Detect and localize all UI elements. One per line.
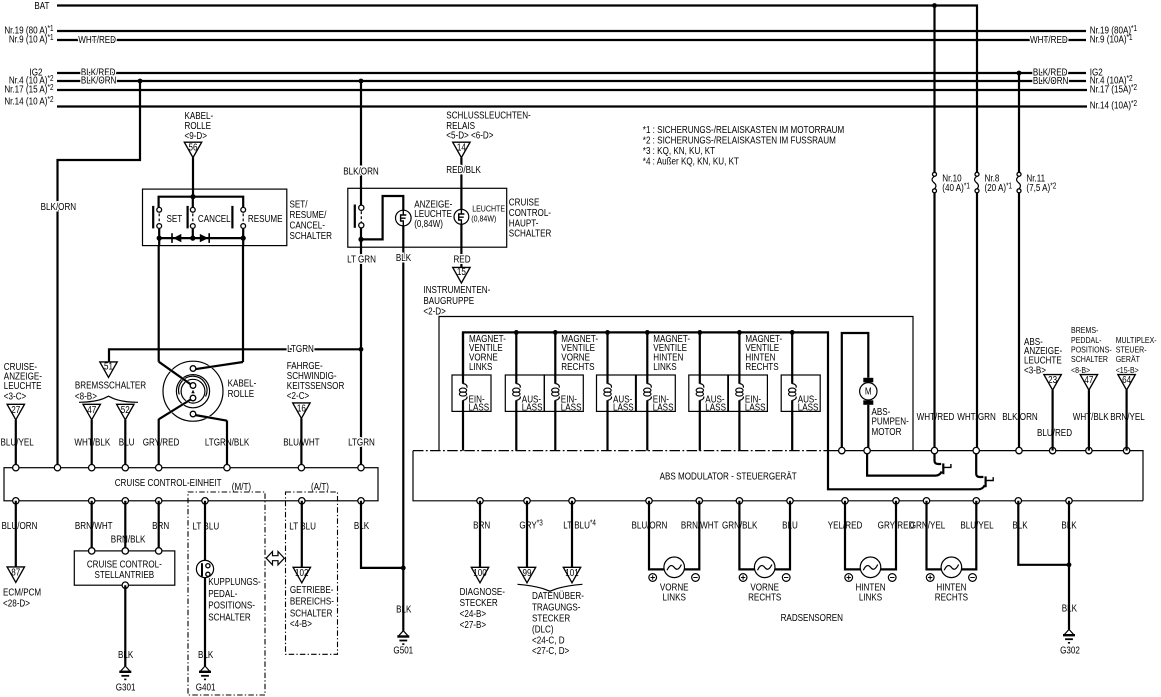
relay contact pump motor [867,451,951,476]
terminal BLU/WHT [298,465,304,471]
svg-text:RED/BLK: RED/BLK [446,164,481,175]
svg-text:47: 47 [87,404,96,415]
svg-text:<4-B>: <4-B> [290,618,312,629]
svg-text:LASS: LASS [561,402,582,413]
svg-text:BLU/WHT: BLU/WHT [283,437,320,448]
wire reel diagonal set to contact2 [161,363,190,383]
svg-text:Nr.9 (10A)*1: Nr.9 (10A)*1 [1090,34,1133,45]
wire Nr.8 column [976,171,978,173]
svg-text:BLK: BLK [354,520,369,531]
svg-text:<24-B>: <24-B> [460,608,487,619]
svg-text:BREMSSCHALTER: BREMSSCHALTER [75,380,147,391]
junction bus ein4 [737,330,742,335]
svg-text:SCHALTER: SCHALTER [208,612,251,623]
svg-text:<2-C>: <2-C> [287,390,309,401]
contact reel 4 [190,411,196,417]
svg-text:LASS: LASS [522,402,543,413]
svg-text:TRAGUNGS-: TRAGUNGS- [532,602,580,613]
terminal GRN/YEL [923,498,929,504]
valve AUS-LASS 2 [597,332,636,450]
switch haupt [355,188,364,228]
svg-text:DATENÜBER-: DATENÜBER- [532,590,584,601]
svg-text:101: 101 [565,567,578,578]
svg-text:56: 56 [189,142,198,153]
terminal BLU/YEL [973,498,979,504]
svg-text:16: 16 [297,403,306,414]
terminal BLU/ORN [646,498,652,504]
box CRUISE CONTROL-HAUPT-SCHALTER [348,188,507,247]
wire reel diagonal contact4 to ltgrn/blk [198,415,226,420]
valve EIN-LASS 2 [544,332,583,450]
connector 64 [1118,375,1135,391]
wire BLU [124,420,126,468]
connector 100 [471,567,488,583]
sensor VORNE LINKS [649,501,700,603]
svg-text:Nr.17 (15 A)*2: Nr.17 (15 A)*2 [4,84,53,95]
wire solenoid bus [463,332,985,489]
junction BAT/Nr.10 [932,3,937,8]
wire LTGRN horizontal [109,349,361,362]
svg-text:Nr.14 (10A)*2: Nr.14 (10A)*2 [1090,100,1137,111]
terminal BLK [358,498,364,504]
svg-text:<27-B>: <27-B> [460,619,487,630]
svg-text:(M/T): (M/T) [232,481,251,492]
svg-text:DIAGNOSE-: DIAGNOSE- [460,586,505,597]
terminal LTGRN [358,465,364,471]
terminal BRN/YEL [1123,447,1129,453]
svg-text:Nr.9 (10 A)*1: Nr.9 (10 A)*1 [9,34,54,45]
wire switch to lamp feed [361,196,403,239]
fuse Nr.10 (40A) [932,172,970,193]
pointer reel [191,390,194,394]
svg-text:M: M [865,386,872,397]
svg-text:LINKS: LINKS [469,361,492,372]
svg-text:Nr.17 (15A)*2: Nr.17 (15A)*2 [1090,84,1137,95]
terminal GRY [524,498,530,504]
svg-text:CANCEL: CANCEL [198,213,231,224]
svg-text:GRY/RED: GRY/RED [143,437,180,448]
svg-text:RESUME/: RESUME/ [290,209,327,220]
wire BLK pair to G302 [1018,501,1069,630]
junction BLK [401,566,406,571]
svg-text:BLK: BLK [1062,603,1077,614]
svg-text:SET/: SET/ [290,199,308,210]
svg-text:G302: G302 [1060,645,1080,656]
wire LT BLU to dlc [571,501,573,568]
wire RED/BLK relay to leuchte [460,158,462,189]
svg-text:RECHTS: RECHTS [935,592,968,603]
svg-text:BLU/RED: BLU/RED [1037,427,1072,438]
svg-text:<8-B>: <8-B> [75,391,97,402]
connector 52 [117,404,134,420]
connector 27 [7,404,24,420]
svg-text:LASS: LASS [798,402,819,413]
diode D1 [171,233,173,243]
svg-text:WHT/BLK: WHT/BLK [1073,411,1109,422]
svg-text:*4 : Außer KQ, KN, KU, KT: *4 : Außer KQ, KN, KU, KT [643,156,740,167]
junction bottom bus right [241,236,246,241]
svg-text:<27-C, D>: <27-C, D> [532,645,569,656]
terminal motor a [839,447,845,453]
svg-text:LT GRN: LT GRN [347,254,376,265]
terminal BRN [477,498,483,504]
svg-text:LT BLU: LT BLU [289,521,316,532]
svg-text:INSTRUMENTEN-: INSTRUMENTEN- [423,284,490,295]
svg-text:BLU: BLU [119,437,135,448]
wire IG2 BLK/RED bus [57,72,1086,74]
svg-text:64: 64 [1122,374,1131,385]
svg-text:STECKER: STECKER [460,597,499,608]
wire BLU/ORN to ECM/PCM [15,501,17,567]
junction IG2/Nr.11 [1017,71,1022,76]
connector 87 [7,567,24,583]
svg-text:(A/T): (A/T) [311,481,329,492]
svg-text:STEUER-: STEUER- [1116,345,1147,355]
wire BRN to diagnose [479,501,481,568]
svg-text:GRN/BLK: GRN/BLK [722,520,757,531]
wire BRN/WHT [91,501,93,551]
svg-text:BEREICHS-: BEREICHS- [290,596,334,607]
valve EIN-LASS 1 [452,332,491,450]
svg-text:(0,84W): (0,84W) [414,218,443,229]
wire SET column down [158,238,161,362]
terminal LT BLU A/T [299,498,305,504]
svg-text:LT BLU: LT BLU [193,521,220,532]
wire BLK/ORN to haupt-schalter [360,81,362,188]
svg-text:BLK/ORN: BLK/ORN [1033,75,1068,86]
wire BLK to G401 [204,578,206,666]
svg-text:LINKS: LINKS [663,592,686,603]
svg-text:LASS: LASS [613,402,634,413]
connector 47 [83,404,100,420]
terminal LT BLU M/T [202,498,208,504]
terminal WHT/BLK [1086,447,1092,453]
svg-text:99: 99 [523,567,532,578]
junction BLK/ORN left drop [138,79,143,84]
wire lamp1 BLK down [402,226,404,247]
contact reel 1 [190,366,196,372]
svg-text:WHT/BLK: WHT/BLK [74,437,110,448]
wire BAT bus [57,6,977,173]
svg-text:WHT/RED: WHT/RED [1030,34,1068,45]
junction bus aus3 [697,330,702,335]
svg-text:BAT: BAT [34,0,50,11]
svg-text:LEUCHTE: LEUCHTE [4,380,42,391]
terminal BLK a [1015,498,1021,504]
svg-text:*3 : KQ, KN, KU, KT: *3 : KQ, KN, KU, KT [643,145,716,156]
svg-text:(DLC): (DLC) [532,624,554,635]
terminal BRN [156,498,162,504]
svg-text:LASS: LASS [745,402,766,413]
junction BLK/ORN haupt-schalter drop [359,79,364,84]
connector 99 [518,567,535,583]
svg-text:BLK/ORN: BLK/ORN [81,75,116,86]
box CRUISE CONTROL-EINHEIT [4,468,378,501]
svg-text:RECHTS: RECHTS [561,361,594,372]
svg-text:BLU/YEL: BLU/YEL [1,437,34,448]
svg-text:LASS: LASS [653,402,674,413]
wire LTGRN/BLK terminal lead [226,421,228,469]
wire Nr.4 BLK/ORN bus [57,80,1086,82]
svg-text:G301: G301 [116,682,136,693]
svg-text:RESUME: RESUME [248,213,283,224]
svg-text:CRUISE CONTROL-EINHEIT: CRUISE CONTROL-EINHEIT [115,477,222,488]
svg-text:BAUGRUPPE: BAUGRUPPE [423,295,474,306]
wire Nr.17 bus [57,89,1087,91]
wire BLK to G301 [124,585,126,666]
junction LTGRN [359,347,364,352]
svg-text:MULTIPLEX-: MULTIPLEX- [1116,335,1157,345]
wire BLK lamp1 to G501 [402,247,404,631]
wire Nr.9 WHT/RED bus [57,39,1086,41]
terminal WHT/RED [931,447,937,453]
svg-text:ECM/PCM: ECM/PCM [3,587,41,598]
svg-text:<5-D> <6-D>: <5-D> <6-D> [446,130,493,141]
motor ABS-PUMPEN-MOTOR [842,333,877,451]
switch RESUME [232,206,282,229]
svg-text:KABEL-: KABEL- [228,378,257,389]
svg-text:<3-B>: <3-B> [1024,365,1046,376]
svg-text:SCHALTER: SCHALTER [290,230,333,241]
switch KUPPLUNGS-PEDAL-POSITIONS-SCHALTER [196,560,213,577]
symbol M/T-A/T arrow [266,552,284,565]
svg-text:LINKS: LINKS [859,592,882,603]
terminal BRN/WHT [696,498,702,504]
cable reel KABEL-ROLLE [163,361,223,421]
svg-text:STECKER: STECKER [532,613,571,624]
terminal BRN/BLK [122,498,128,504]
svg-text:51: 51 [104,361,113,372]
fuse Nr.8 (20A) [975,172,1013,193]
svg-text:BLK/ORN: BLK/ORN [1002,411,1037,422]
wire lamp2 RED down [460,224,462,267]
terminal WHT/BLK [89,465,95,471]
lamp ANZEIGE-LEUCHTE [396,210,412,226]
terminal BLK b [1066,498,1072,504]
svg-text:MOTOR: MOTOR [872,426,902,437]
terminal GRN/BLK [736,498,742,504]
terminal BLK/ORN [1016,447,1022,453]
terminal BLU/YEL [13,465,19,471]
fuse Nr.11 (7,5A) [1017,172,1057,193]
svg-text:BLK: BLK [118,649,133,660]
svg-text:POSITIONS-: POSITIONS- [208,600,255,611]
junction bus ein2 [553,330,558,335]
svg-text:WHT/RED: WHT/RED [917,411,955,422]
wire WHT/BLK [1088,390,1090,451]
svg-text:23: 23 [1048,374,1057,385]
svg-text:SCHALTER: SCHALTER [509,228,552,239]
svg-text:BLK/ORN: BLK/ORN [41,201,76,212]
terminal GRY/RED [893,498,899,504]
svg-text:BLK: BLK [1012,520,1027,531]
svg-text:BRN/WHT: BRN/WHT [75,520,113,531]
svg-text:LASS: LASS [469,402,490,413]
svg-text:Nr.14 (10 A)*2: Nr.14 (10 A)*2 [4,96,53,107]
ground G401 [199,666,211,679]
svg-text:BLK: BLK [396,604,411,615]
svg-text:87: 87 [11,567,20,578]
terminal BLU/RED [1049,447,1055,453]
wire RESUME column down [242,238,244,362]
junction bus aus1 [514,330,519,335]
valve AUS-LASS 4 [781,332,820,450]
terminal motor b [864,447,870,453]
svg-text:STELLANTRIEB: STELLANTRIEB [94,569,154,580]
wire Nr.19 bus [57,30,1086,32]
connector 16 [293,403,310,419]
valve EIN-LASS 4 [728,332,767,450]
svg-text:LINKS: LINKS [653,361,676,372]
svg-text:BLK/ORN: BLK/ORN [343,166,378,177]
terminal BRN/WHT [89,498,95,504]
svg-text:<3-C>: <3-C> [4,391,26,402]
terminal WHT/GRN [973,447,979,453]
wire Nr.11 column upper [1018,73,1020,172]
wire LT BLU M/T [204,501,206,561]
svg-text:GRN/YEL: GRN/YEL [910,520,945,531]
junction bottom bus mid [190,236,195,241]
svg-text:RED: RED [453,254,470,265]
connector 14 [453,142,470,157]
wire switch top bus [159,197,244,207]
svg-text:15: 15 [457,266,466,277]
svg-text:PEDDAL-: PEDDAL- [1071,335,1102,345]
terminal LTGRN/BLK [224,465,230,471]
svg-text:BREMS-: BREMS- [1071,325,1099,335]
box (A/T) dashed [286,492,338,654]
svg-text:GETRIEBE-: GETRIEBE- [290,584,334,595]
wire BLK cruise to G501 [361,501,403,568]
junction bus ein3 [645,330,650,335]
brace dlc [518,584,583,591]
sensor HINTEN LINKS [845,501,896,603]
wire BLU/YEL [15,420,17,468]
svg-text:CANCEL-: CANCEL- [290,220,325,231]
junction bus aus4 [790,330,795,335]
svg-text:BRN/WHT: BRN/WHT [681,520,719,531]
svg-text:PEDAL-: PEDAL- [208,588,237,599]
svg-text:LTGRN: LTGRN [348,437,375,448]
wire GRY/RED terminal lead [158,419,160,468]
contact reel 3 [190,395,196,401]
wire Nr.10 column [933,6,935,173]
wire BLK/ORN drop to cruise unit [58,81,141,468]
ground G501 [397,631,409,644]
lamp LEUCHTE [454,188,469,224]
terminal BLU/ORN [13,498,19,504]
connector 47b [1080,375,1097,391]
svg-text:47: 47 [1084,374,1093,385]
svg-text:CRUISE: CRUISE [509,197,540,208]
switch SET [153,206,182,229]
wire BLU/RED [1051,390,1053,451]
wire WHT/RED fuse to modulator [933,193,935,451]
terminal stellantrieb bottom [122,582,128,588]
wire LTGRN out of box [360,239,362,247]
svg-text:BRN/BLK: BRN/BLK [111,534,146,545]
svg-text:52: 52 [121,404,130,415]
box ABS MODULATOR - STEUERGERAET [413,450,828,452]
svg-text:BLK: BLK [396,252,411,263]
contact reel 2 [190,383,196,389]
wire LTGRN down to cruise unit [360,247,362,468]
wire reel diagonal resume to top contact [198,362,241,369]
svg-text:BLK: BLK [1061,520,1076,531]
terminal BLU [122,465,128,471]
svg-text:<24-C, D: <24-C, D [532,635,565,646]
svg-text:(0,84W): (0,84W) [471,214,496,224]
diode D2 [200,234,208,242]
svg-text:WHT/RED: WHT/RED [78,34,116,45]
switch CANCEL [188,197,231,229]
svg-text:*1 : SICHERUNGS-/RELAISKASTEN: *1 : SICHERUNGS-/RELAISKASTEN IM MOTORRA… [643,124,844,135]
svg-text:102: 102 [295,567,308,578]
valve EIN-LASS 3 [636,332,675,450]
wire BRN/YEL [1125,390,1127,451]
wire BRN/BLK [124,501,126,551]
svg-text:27: 27 [11,404,20,415]
box solenoid assembly (thin) [439,317,913,451]
svg-text:RADSENSOREN: RADSENSOREN [781,612,843,623]
box SET/RESUME/CANCEL-SCHALTER [143,189,287,246]
svg-text:WHT/GRN: WHT/GRN [957,411,996,422]
svg-text:BLU/YEL: BLU/YEL [960,520,993,531]
junction top bus [190,194,195,199]
terminal BLK/ORN [54,465,60,471]
relay contact solenoid feed [976,451,993,488]
svg-text:<2-D>: <2-D> [423,306,445,317]
terminal BLU [787,498,793,504]
sensor VORNE RECHTS [739,501,790,603]
svg-text:KUPPLUNGS-: KUPPLUNGS- [208,576,261,587]
connector 23 [1044,375,1061,391]
svg-text:BLK: BLK [198,649,213,660]
svg-text:LTGRN: LTGRN [287,343,314,354]
wire connector 56 to set box [192,158,194,197]
valve AUS-LASS 1 [505,332,544,450]
ground G302 [1063,629,1075,642]
svg-text:<28-D>: <28-D> [3,598,30,609]
svg-text:<9-D>: <9-D> [185,130,207,141]
terminal LT BLU [569,498,575,504]
wire BRN [158,501,160,551]
svg-text:YEL/RED: YEL/RED [828,520,863,531]
connector 56 [184,142,201,157]
junction BLK [1067,562,1072,567]
svg-text:LASS: LASS [705,402,726,413]
svg-text:PUMPEN-: PUMPEN- [872,416,909,427]
connector 102 [293,567,310,583]
wire reel diagonal contact3 to gry/red [161,400,190,418]
connector 15 [453,267,470,283]
valve AUS-LASS 3 [689,332,728,450]
svg-text:RECHTS: RECHTS [748,592,781,603]
wire Nr.14 bus [57,105,1087,107]
wire WHT/GRN fuse to modulator [976,193,978,451]
box (M/T) dashed [188,492,265,695]
svg-text:G401: G401 [196,682,216,693]
junction LTGRN node [358,237,363,242]
svg-text:100: 100 [473,567,486,578]
connector 51 [100,362,117,378]
junction bottom bus left [157,236,162,241]
svg-text:BLU: BLU [782,520,798,531]
wire BLK/ORN fuse to modulator [1018,193,1020,451]
svg-text:SCHALTER: SCHALTER [290,608,333,619]
svg-text:BRN: BRN [152,520,169,531]
terminal GRY/RED [156,465,162,471]
